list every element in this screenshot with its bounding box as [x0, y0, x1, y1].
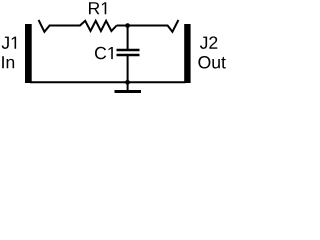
label In: [2, 56, 14, 68]
capacitor C1 top plate: [117, 49, 140, 52]
wire: bottom rail: [30, 81, 186, 83]
label Out: [198, 56, 225, 68]
wire: resistor to J2 tip: [117, 25, 169, 27]
wire: J1 tip to resistor: [49, 25, 81, 27]
node junction dot (bottom, C1/ground): [125, 80, 130, 85]
label C1: [95, 47, 113, 59]
ground: [115, 90, 142, 93]
label J1: [2, 37, 17, 49]
jack J1 tip contact (chevron): [39, 20, 50, 32]
wire: C1 down to bottom rail: [127, 56, 129, 82]
node junction dot (top, R1/C1/J2): [125, 23, 130, 28]
capacitor C1 bottom plate: [117, 54, 140, 57]
jack J2 tip contact (chevron): [168, 20, 179, 32]
resistor R1: [80, 21, 117, 31]
wire: junction down to C1: [127, 26, 129, 50]
label J2: [200, 36, 217, 48]
jack J2 sleeve bar: [184, 24, 190, 83]
wire: junction down to ground: [127, 82, 129, 90]
jack J1 sleeve bar: [25, 24, 32, 83]
label R1: [89, 2, 106, 14]
